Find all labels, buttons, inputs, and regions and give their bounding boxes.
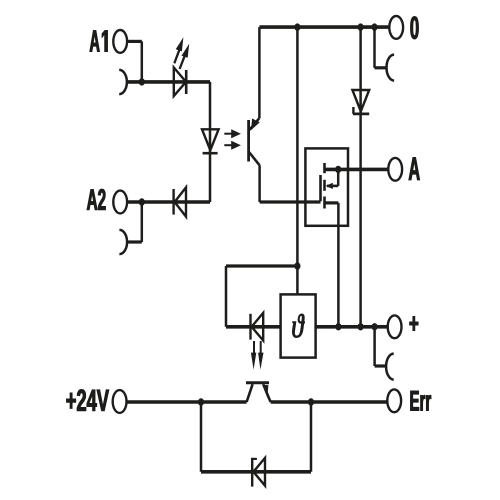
terminal A1 [113, 30, 127, 53]
thermal sensor theta symbol [293, 314, 305, 338]
wire A2 clamp vertical [141, 202, 144, 242]
wire bottom rail right [271, 400, 388, 404]
wire MOSFET body horizontal [327, 185, 338, 188]
zener diode D4 [252, 458, 265, 487]
clamp contact below A2 [119, 230, 127, 254]
label A2 [87, 189, 106, 210]
terminal +24V [113, 390, 127, 413]
clamp contact below A1 [119, 70, 127, 94]
junction dot plus rail clamp [372, 323, 378, 330]
junction dot top rail zener [358, 23, 364, 30]
junction dot bottom rail left [198, 398, 204, 405]
wire loop bottom [201, 470, 311, 474]
MOSFET T1 body arrow [326, 183, 333, 189]
wire A1 down segment [141, 41, 144, 82]
wire A1 row [127, 80, 210, 84]
thermal sensor box [281, 294, 316, 357]
terminal 0 [389, 16, 403, 39]
label 0 [411, 17, 419, 40]
wire phototransistor emitter vertical [258, 165, 261, 202]
wire 0-clamp vertical [373, 27, 376, 68]
junction dot top rail clamp [371, 23, 377, 30]
wire MOSFET source lead [325, 201, 339, 204]
junction dot mid branch [294, 262, 300, 269]
wire zener branch vertical [359, 27, 362, 327]
phototransistor Q1 [249, 118, 260, 165]
zener diode D3 [352, 90, 369, 114]
junction dot plus rail source [335, 323, 341, 330]
optocoupler LED D2 [202, 129, 219, 153]
label +24V [67, 390, 109, 411]
junction dot bottom rail right [308, 398, 314, 405]
junction dot top rail center [294, 23, 300, 30]
terminal A [388, 158, 402, 181]
wire loop right vertical [310, 402, 313, 472]
label A1 [90, 31, 108, 52]
clamp contact below 0 [387, 55, 395, 81]
label plus [410, 317, 419, 331]
wire plus-clamp stub [375, 364, 387, 367]
wire mid branch horizontal [226, 264, 297, 267]
MOSFET T1 gate line [319, 175, 322, 201]
wire A1 terminal to junction [127, 40, 142, 43]
LED D6 error indicator [251, 313, 264, 341]
wire left branch vertical [225, 266, 228, 327]
clamp contact below plus [386, 354, 394, 380]
wire MOSFET source vertical [337, 203, 340, 327]
optocoupler light arrows [224, 129, 241, 150]
junction dot A1 row [139, 78, 145, 85]
wire A2 row [127, 200, 210, 204]
label A [409, 157, 420, 180]
label Err [411, 391, 432, 411]
wire A output row [325, 168, 389, 172]
light arrows of LED D6 [251, 341, 264, 370]
wire gate lead row [260, 200, 321, 203]
LED D5 status indicator [174, 68, 186, 97]
junction dot plus rail zener [358, 323, 364, 330]
wire LED chain vertical [209, 82, 212, 202]
wire phototransistor collector vertical [258, 27, 261, 118]
junction dot A2 row [139, 198, 145, 205]
wire loop left vertical [200, 402, 203, 472]
MOSFET T1 channel segments [323, 163, 326, 209]
terminal A2 [113, 191, 127, 214]
wire plus-clamp vertical [373, 327, 376, 366]
transistor Q2 [246, 383, 271, 402]
light arrows of LED D5 [174, 37, 189, 69]
terminal Err [387, 389, 401, 412]
junction dot drain [335, 166, 341, 173]
wire bottom rail left [127, 400, 247, 404]
wire MOSFET body vertical [337, 169, 340, 186]
wire 0-clamp stub [375, 66, 388, 69]
terminal plus [388, 315, 402, 338]
wire plus rail [226, 325, 388, 329]
diode D1 at A2 [174, 187, 186, 216]
wire A2 clamp stub horizontal [128, 240, 142, 243]
wire top rail [259, 25, 389, 29]
MOSFET T1 enclosure box [305, 148, 348, 225]
wire center vertical [296, 27, 299, 294]
